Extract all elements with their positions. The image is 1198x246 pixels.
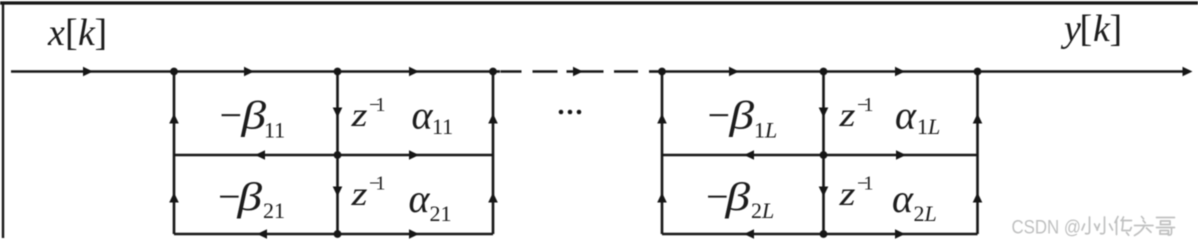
- svg-text:21: 21: [430, 201, 452, 226]
- svg-text:β: β: [724, 174, 750, 219]
- arrowhead: section2 mid row right (toward a1L): [896, 150, 906, 160]
- node: section2 first delay tap: [820, 151, 828, 159]
- node A2: section2 input sum node: [658, 68, 666, 76]
- arrowhead: section2 bottom row right (toward a2L): [895, 229, 905, 239]
- svg-text:]: ]: [95, 12, 108, 54]
- arrowhead: output line right: [1183, 67, 1193, 77]
- arrowhead: section2 mid row left (toward -b1L): [744, 150, 754, 160]
- node: section1 second delay tap: [334, 230, 342, 238]
- node D2: section2 top of delay chain: [820, 68, 828, 76]
- arrowhead: section2 right vertical up (lower): [973, 193, 983, 203]
- arrowhead: input line right: [83, 67, 93, 77]
- node O1: section1 output node: [489, 68, 497, 76]
- gain label: alpha_21: [409, 176, 452, 226]
- wire: dashed interconnect between sections: [493, 70, 662, 73]
- arrowhead: section2 right vertical up (upper): [973, 114, 983, 124]
- frame top border: [0, 1, 1198, 4]
- svg-text:1L: 1L: [917, 114, 940, 139]
- wire: node A2 to node D2 (top of section 2): [662, 70, 824, 73]
- arrowhead: section2 top mid right: [729, 67, 739, 77]
- wire: section 2 middle row (first delay tap): [662, 154, 978, 157]
- gain label: -beta_21: [216, 174, 286, 223]
- svg-text:−: −: [705, 93, 732, 138]
- wire: node A1 to node D1 (top of section 1): [174, 70, 338, 73]
- arrowhead: section1 left vertical up (lower): [169, 193, 179, 203]
- watermark: CSDN @ (gray): [1012, 218, 1082, 239]
- arrowhead: section1 left vertical up (upper): [169, 114, 179, 124]
- svg-text:1: 1: [376, 173, 386, 195]
- gain label: -beta_1L: [705, 93, 777, 143]
- gain label: -beta_11: [217, 93, 285, 143]
- wire: input line x[k] to node A1: [11, 70, 174, 73]
- svg-text:β: β: [236, 174, 262, 219]
- wire: section 2 right feedforward vertical: [976, 72, 979, 235]
- gain label: alpha_2L: [892, 176, 937, 226]
- svg-text:α: α: [412, 93, 434, 138]
- wire: section 1 left feedback vertical: [173, 72, 176, 235]
- arrowhead: section1 mid row left (toward -b11): [255, 150, 265, 160]
- arrowhead: section2 bottom row left (toward -b2L): [744, 229, 754, 239]
- wire: section 1 right feedforward vertical: [492, 72, 495, 235]
- arrowhead: section1 delay down (lower z^-1): [333, 187, 343, 197]
- svg-text:z: z: [350, 176, 367, 213]
- svg-text:β: β: [728, 93, 754, 138]
- wire: section 2 left feedback vertical: [661, 72, 664, 235]
- svg-text:z: z: [838, 97, 855, 134]
- svg-text:CSDN @: CSDN @: [1012, 218, 1082, 239]
- svg-text:y: y: [1060, 8, 1081, 50]
- node: section2 second delay tap: [820, 230, 828, 238]
- svg-text:β: β: [240, 93, 266, 138]
- svg-text:1: 1: [864, 173, 874, 195]
- delay label: z^-1 (section1 lower): [350, 173, 385, 214]
- node D1: section1 top of delay chain: [334, 68, 342, 76]
- arrowhead: section2 delay down (upper z^-1): [819, 108, 829, 118]
- arrowhead: section1 delay down (upper z^-1): [333, 108, 343, 118]
- arrowhead: section2 delay down (lower z^-1): [819, 187, 829, 197]
- svg-text:z: z: [350, 97, 367, 134]
- wire: section 1 middle row (first delay tap): [174, 154, 493, 157]
- delay label: z^-1 (section2 upper): [838, 94, 873, 134]
- watermark CJK glyphs drawn as strokes: 小小低头哥: [1082, 217, 1175, 236]
- svg-text:21: 21: [263, 198, 285, 223]
- node O2: section2 output node: [974, 68, 982, 76]
- label: input signal x[k]: [47, 12, 107, 54]
- svg-text:[: [: [65, 12, 78, 54]
- svg-text:11: 11: [432, 114, 453, 139]
- wire: section 2 delay chain vertical (z^-1 branch): [822, 72, 825, 235]
- node A1: section1 input sum node: [170, 68, 178, 76]
- arrowhead: section1 bottom row left (toward -b21): [257, 229, 267, 239]
- gain label: alpha_1L: [895, 93, 940, 140]
- svg-text:z: z: [838, 176, 855, 213]
- arrowhead: dashed interconnect right: [573, 67, 583, 77]
- svg-text:k: k: [78, 12, 96, 54]
- svg-text:k: k: [1093, 8, 1111, 50]
- arrowhead: section1 top right cell right: [409, 67, 419, 77]
- wire: node D2 to node O2 (top of section 2): [824, 70, 978, 73]
- svg-text:2L: 2L: [914, 201, 937, 226]
- gain label: -beta_2L: [704, 174, 775, 223]
- wire: node D1 to node O1 (top of section 1): [338, 70, 494, 73]
- arrowhead: section2 left vertical up (upper): [657, 114, 667, 124]
- svg-text:x: x: [47, 12, 65, 54]
- wire: section 1 bottom row (second delay tap): [174, 233, 493, 236]
- svg-text:[: [: [1080, 8, 1093, 50]
- arrowhead: section2 left vertical up (lower): [657, 193, 667, 203]
- frame left border: [2, 2, 4, 239]
- delay label: z^-1 (section1 upper): [350, 94, 385, 134]
- svg-text:11: 11: [264, 118, 285, 143]
- node: section1 first delay tap: [334, 151, 342, 159]
- label: output signal y[k]: [1060, 8, 1122, 50]
- svg-text:]: ]: [1110, 8, 1123, 50]
- arrowhead: section1 bottom row right (toward a21): [409, 229, 419, 239]
- svg-text:1L: 1L: [754, 118, 777, 143]
- arrowhead: section2 top right cell right: [895, 67, 905, 77]
- svg-text:1: 1: [376, 94, 386, 116]
- wire: section 1 delay chain vertical (z^-1 branch): [336, 72, 339, 235]
- svg-text:α: α: [895, 93, 917, 138]
- arrowhead: section1 mid row right (toward a11): [409, 150, 419, 160]
- svg-text:2L: 2L: [751, 198, 774, 223]
- gain label: alpha_11: [412, 93, 454, 140]
- svg-text:α: α: [892, 176, 914, 221]
- arrowhead: section1 right vertical up (lower): [488, 193, 498, 203]
- delay label: z^-1 (section2 lower): [838, 173, 873, 214]
- wire: output line to y[k]: [978, 70, 1185, 73]
- wire: section 2 bottom row (second delay tap): [662, 233, 978, 236]
- svg-text:−: −: [217, 93, 244, 138]
- ellipsis dots between sections: [559, 110, 582, 115]
- svg-text:1: 1: [864, 94, 874, 116]
- svg-text:α: α: [409, 176, 431, 221]
- arrowhead: section1 top mid right: [244, 67, 254, 77]
- arrowhead: section1 right vertical up (upper): [488, 114, 498, 124]
